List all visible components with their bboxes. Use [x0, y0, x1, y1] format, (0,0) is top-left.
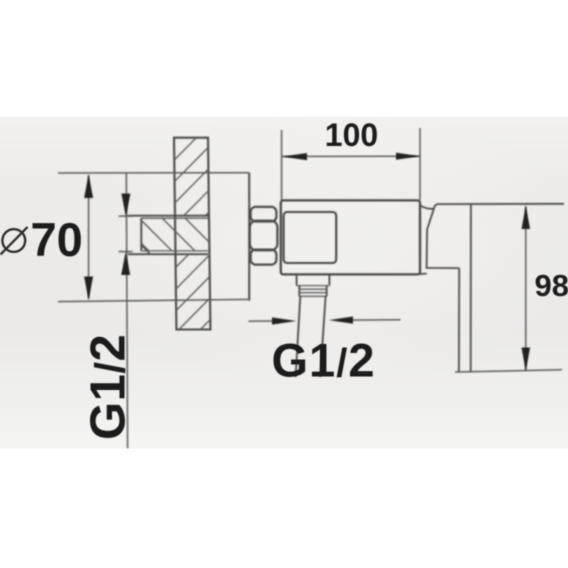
100 right	[396, 153, 420, 160]
supply pipe corner chamfer	[141, 245, 150, 254]
supply pipe bottom inner edge	[141, 250, 208, 252]
100 dimension line	[282, 155, 420, 157]
98 bottom (down)	[522, 348, 531, 372]
d70 dimension line	[88, 175, 90, 299]
handle top line / 98 extension top	[434, 204, 564, 209]
photo background	[0, 117, 568, 449]
svg-text:70: 70	[31, 213, 83, 266]
pipe hatch	[130, 140, 250, 352]
G1/2 left (right-pointing)	[272, 317, 296, 324]
98 top (up)	[522, 206, 531, 229]
supply pipe top outer edge	[128, 215, 208, 217]
outlet collar lower left edge	[298, 286, 300, 297]
G1/2 leader line left	[126, 173, 127, 448]
outlet collar lower right edge	[326, 286, 328, 297]
wall section	[144, 104, 244, 405]
face plate square	[284, 212, 337, 263]
outlet collar ridge 3	[299, 295, 326, 297]
body bottom to cone base	[420, 273, 427, 275]
G1/2 arrow tail left	[249, 320, 282, 322]
outlet collar ridge 2	[299, 292, 326, 294]
supply pipe bottom outer edge	[128, 253, 208, 255]
svg-text:100: 100	[325, 117, 378, 153]
G1/2 arrow tail right	[345, 319, 401, 321]
outlet collar upper left edge	[296, 275, 298, 286]
100 extension line left	[281, 130, 283, 200]
svg-text:G1/2: G1/2	[272, 334, 376, 387]
svg-text:98: 98	[535, 268, 568, 303]
subtle photo vignette highlight	[70, 105, 568, 385]
d70 bottom (down)	[84, 277, 93, 301]
wall hatch top	[144, 104, 232, 298]
100 extension line right	[419, 128, 421, 200]
escutcheon plate	[248, 173, 250, 301]
98 dimension line	[525, 206, 527, 370]
98 extension bottom	[455, 370, 562, 372]
outlet pipe right edge	[320, 296, 325, 377]
handle shoulder	[421, 206, 434, 209]
valve body	[281, 200, 420, 274]
outlet collar upper right edge	[328, 275, 330, 286]
connection nut	[250, 207, 278, 265]
handle cone	[427, 209, 460, 268]
lever rear	[470, 204, 472, 371]
svg-text:G1/2: G1/2	[82, 334, 136, 440]
outlet collar ridge 1	[299, 288, 326, 290]
G1/2 right (left-pointing)	[329, 317, 353, 324]
d70 top (up)	[84, 175, 93, 198]
pipe top (down)	[121, 194, 130, 217]
solid arrowheads	[84, 153, 530, 371]
pipe diameter tick top	[119, 215, 133, 217]
100 left	[283, 153, 307, 160]
outlet pipe left edge	[296, 296, 301, 377]
outlet collar shoulder	[297, 285, 330, 287]
lever front	[458, 268, 460, 371]
supply pipe left end cap	[140, 218, 142, 251]
pipe bottom (up)	[121, 252, 130, 275]
wall hatch bottom	[145, 202, 244, 406]
supply pipe top inner edge	[141, 217, 208, 219]
dimension extension line top (d70)	[58, 172, 249, 174]
diameter symbol	[1, 227, 28, 255]
pipe diameter tick bottom	[119, 251, 133, 253]
dimension extension line bottom (d70)	[58, 299, 249, 301]
